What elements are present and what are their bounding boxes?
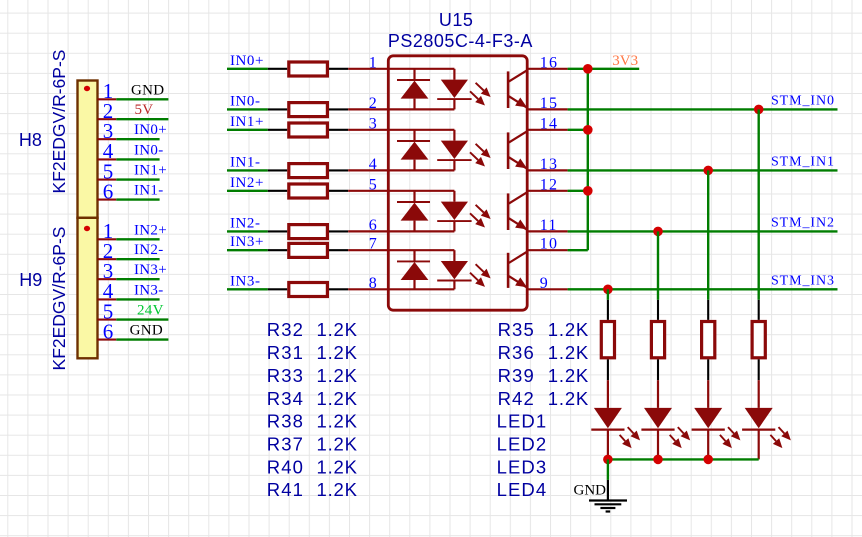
svg-text:14: 14 [540, 115, 558, 132]
svg-text:IN3-: IN3- [134, 282, 164, 298]
svg-text:STM_IN3: STM_IN3 [771, 274, 835, 289]
svg-text:1.2K: 1.2K [548, 319, 589, 340]
svg-text:1.2K: 1.2K [317, 319, 358, 340]
svg-text:13: 13 [540, 156, 558, 173]
svg-text:7: 7 [369, 236, 377, 253]
svg-text:STM_IN2: STM_IN2 [771, 216, 835, 231]
svg-text:8: 8 [369, 275, 377, 292]
svg-text:6: 6 [369, 217, 377, 234]
svg-text:16: 16 [540, 54, 558, 71]
svg-text:R39: R39 [498, 365, 535, 386]
svg-text:GND: GND [574, 482, 607, 498]
svg-text:3V3: 3V3 [612, 53, 638, 69]
svg-text:10: 10 [540, 236, 558, 253]
svg-text:6: 6 [103, 319, 114, 343]
svg-text:STM_IN0: STM_IN0 [771, 94, 835, 109]
svg-text:R34: R34 [267, 388, 304, 409]
svg-text:6: 6 [103, 179, 114, 203]
svg-text:KF2EDGV/R-6P-S: KF2EDGV/R-6P-S [49, 50, 69, 194]
svg-text:1: 1 [369, 54, 377, 71]
svg-text:IN1-: IN1- [134, 183, 164, 199]
svg-text:R42: R42 [498, 388, 535, 409]
svg-text:IN3+: IN3+ [230, 234, 264, 250]
svg-text:IN3+: IN3+ [134, 262, 167, 278]
svg-text:IN0+: IN0+ [230, 53, 264, 69]
svg-text:R33: R33 [267, 365, 304, 386]
svg-text:IN0+: IN0+ [134, 122, 167, 138]
svg-text:KF2EDGV/R-6P-S: KF2EDGV/R-6P-S [49, 227, 69, 371]
svg-text:2: 2 [369, 95, 377, 112]
svg-text:R36: R36 [498, 342, 535, 363]
svg-text:IN0-: IN0- [230, 93, 261, 109]
svg-text:1.2K: 1.2K [317, 479, 358, 500]
svg-text:1.2K: 1.2K [317, 411, 358, 432]
svg-text:11: 11 [540, 217, 558, 234]
svg-text:1.2K: 1.2K [548, 342, 589, 363]
svg-text:IN1+: IN1+ [134, 163, 167, 179]
svg-text:1.2K: 1.2K [317, 365, 358, 386]
svg-text:1.2K: 1.2K [317, 456, 358, 477]
svg-text:IN2+: IN2+ [230, 175, 264, 191]
svg-text:1.2K: 1.2K [548, 388, 589, 409]
svg-text:LED3: LED3 [497, 456, 548, 477]
svg-text:5: 5 [369, 176, 377, 193]
svg-text:1.2K: 1.2K [317, 433, 358, 454]
svg-text:H8: H8 [19, 130, 42, 150]
svg-text:R35: R35 [498, 319, 535, 340]
svg-text:R31: R31 [267, 342, 304, 363]
svg-text:24V: 24V [137, 303, 164, 319]
svg-text:9: 9 [540, 275, 549, 292]
svg-text:15: 15 [540, 95, 558, 112]
svg-text:4: 4 [369, 156, 377, 173]
svg-text:H9: H9 [19, 270, 42, 290]
svg-text:LED4: LED4 [497, 479, 548, 500]
svg-text:3: 3 [369, 115, 377, 132]
svg-text:U15: U15 [439, 10, 474, 30]
svg-text:IN2-: IN2- [134, 242, 164, 258]
svg-text:1.2K: 1.2K [317, 342, 358, 363]
svg-text:IN2+: IN2+ [134, 222, 167, 238]
svg-text:R40: R40 [267, 456, 304, 477]
svg-text:IN1-: IN1- [230, 154, 261, 170]
svg-text:GND: GND [131, 82, 164, 98]
svg-text:LED2: LED2 [497, 433, 548, 454]
svg-text:R32: R32 [267, 319, 304, 340]
svg-text:IN3-: IN3- [230, 273, 261, 289]
svg-text:R38: R38 [267, 411, 304, 432]
svg-text:IN2-: IN2- [230, 215, 261, 231]
svg-text:1.2K: 1.2K [548, 365, 589, 386]
svg-text:STM_IN1: STM_IN1 [771, 155, 835, 170]
svg-text:LED1: LED1 [497, 411, 548, 432]
svg-text:R41: R41 [267, 479, 304, 500]
svg-text:1.2K: 1.2K [317, 388, 358, 409]
svg-text:5V: 5V [135, 102, 154, 118]
svg-text:GND: GND [130, 323, 163, 339]
svg-text:12: 12 [540, 176, 558, 193]
svg-text:R37: R37 [267, 433, 304, 454]
svg-text:IN0-: IN0- [134, 142, 164, 158]
svg-text:PS2805C-4-F3-A: PS2805C-4-F3-A [388, 31, 533, 51]
svg-text:IN1+: IN1+ [230, 114, 264, 130]
